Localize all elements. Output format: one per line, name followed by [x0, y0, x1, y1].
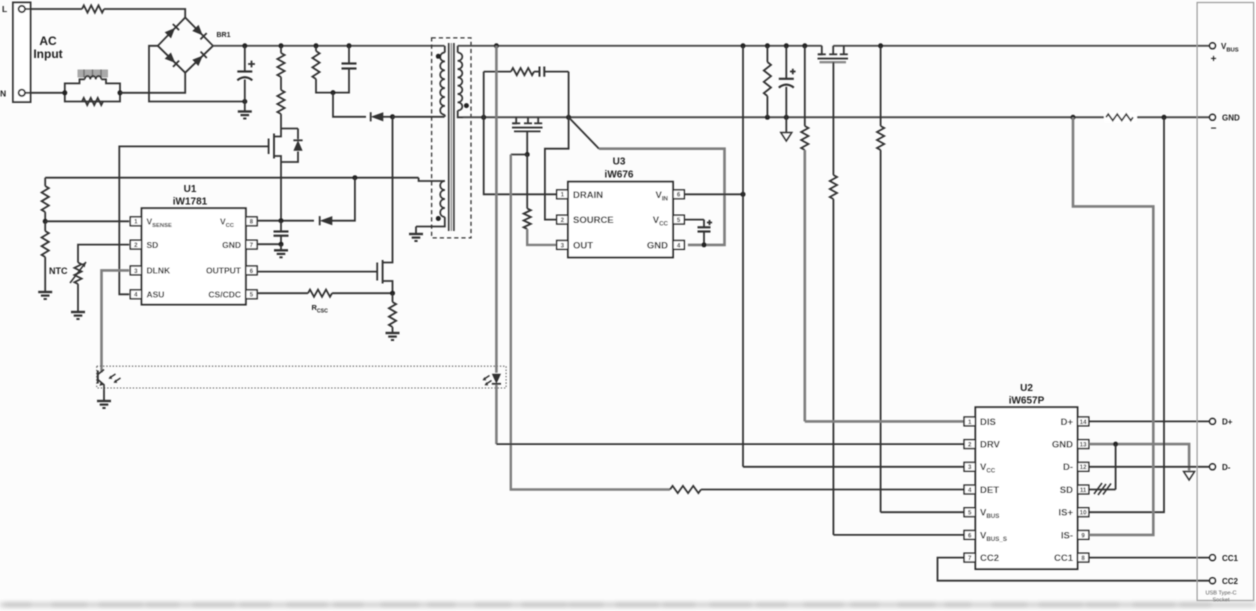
choke L1 winding — [85, 76, 102, 79]
svg-text:SD: SD — [1060, 485, 1073, 496]
svg-text:Input: Input — [33, 47, 62, 61]
svg-text:U3: U3 — [613, 157, 626, 168]
U2 pin label SD — [1060, 485, 1073, 496]
node switch node — [390, 114, 395, 119]
U1 pin label ASU — [147, 290, 165, 300]
capacitor C4 (snubber) — [534, 67, 569, 77]
U1 pin label OUTPUT — [206, 266, 242, 276]
node — [314, 43, 319, 48]
ground (U2 GND) — [1184, 472, 1195, 481]
node VCC cap — [279, 218, 284, 223]
svg-text:IS+: IS+ — [1058, 508, 1073, 519]
diode Q1 body — [293, 140, 302, 150]
svg-text:CC1: CC1 — [1222, 554, 1239, 563]
bridge BR1 diode D-c — [165, 53, 179, 67]
svg-text:CC2: CC2 — [980, 553, 999, 564]
wire — [331, 178, 355, 221]
U2 pin 7 — [964, 553, 975, 562]
svg-text:OUTPUT: OUTPUT — [206, 266, 242, 276]
wire SD — [78, 245, 129, 263]
U1 pin label DLNK — [147, 266, 171, 276]
resistor R6 (snubber) — [484, 68, 534, 75]
ground (aux winding) — [409, 227, 423, 242]
node Q2 source — [390, 291, 395, 296]
resistor R3 (clamp) — [312, 46, 333, 93]
U3 pin 1 — [557, 190, 568, 199]
U3 pin label GND — [647, 241, 668, 252]
U3 pin label DRAIN — [573, 190, 603, 201]
svg-text:10: 10 — [1080, 510, 1087, 517]
svg-text:SOURCE: SOURCE — [573, 215, 614, 226]
U3 pin label OUT — [573, 241, 593, 252]
wire VCC — [257, 220, 314, 222]
wire SD link — [1089, 444, 1116, 489]
node — [741, 43, 746, 48]
wire IS+ — [1089, 117, 1164, 512]
U3 pin label VCC — [653, 215, 669, 228]
svg-text:4: 4 — [134, 292, 138, 299]
SD strike marks — [1094, 483, 1111, 495]
wire Q1 gate to ASU — [119, 146, 268, 294]
wire L — [25, 8, 82, 10]
resistor R11 — [877, 46, 884, 512]
wire U3 drain — [484, 117, 557, 194]
U1 pin 6 — [246, 266, 257, 275]
scan artifact band — [0, 602, 1256, 608]
U2 pin label CC1 — [1054, 553, 1074, 564]
svg-text:iW1781: iW1781 — [173, 197, 208, 208]
wire IS- — [1073, 117, 1153, 535]
wire — [104, 9, 185, 18]
resistor R9 — [801, 46, 808, 422]
node — [566, 115, 571, 120]
svg-text:−: − — [1211, 124, 1217, 135]
node choke left — [62, 90, 67, 95]
label BR1 — [217, 32, 231, 39]
svg-text:iW657P: iW657P — [1009, 396, 1045, 407]
bridge BR1 diode D-b — [192, 25, 206, 39]
node — [702, 242, 707, 247]
wire — [483, 72, 485, 118]
transformer T1 aux winding — [416, 178, 445, 227]
wire aux rail — [45, 177, 418, 179]
U2 pin 3 — [964, 462, 975, 471]
capacitor C3 (VCC) — [274, 221, 289, 245]
label USB Type-C Socket — [1206, 591, 1237, 604]
svg-text:ASU: ASU — [147, 290, 165, 300]
svg-text:iW676: iW676 — [605, 170, 634, 181]
terminal CC2 — [1210, 577, 1239, 586]
wire — [333, 93, 366, 117]
svg-text:7: 7 — [250, 242, 254, 249]
ground (divider) — [38, 292, 52, 299]
transistor Q2 (main switch MOSFET) — [377, 117, 392, 293]
svg-text:DET: DET — [980, 485, 999, 496]
svg-text:1: 1 — [968, 419, 972, 426]
U1 pin 7 — [246, 240, 257, 249]
ground (U1 VCC) — [274, 244, 288, 257]
U2 pin 1 — [964, 417, 975, 426]
wire — [149, 46, 245, 102]
capacitor C5 (U3 VCC) — [684, 220, 712, 245]
svg-text:CC2: CC2 — [1222, 577, 1239, 586]
resistor R8 (preload) — [764, 46, 771, 118]
U4 LED arrows — [483, 376, 492, 386]
transistor Q1 (startup MOSFET) — [269, 129, 298, 221]
U2 pin 11 — [1078, 485, 1089, 494]
connector J2 (USB Type-C socket) — [1197, 3, 1254, 601]
resistor R10 (gate) — [830, 175, 837, 535]
wire GND pin — [257, 243, 281, 245]
svg-text:U2: U2 — [1020, 383, 1033, 394]
U1 pin 3 — [130, 266, 141, 275]
svg-text:2: 2 — [561, 217, 565, 224]
svg-text:U1: U1 — [184, 184, 197, 195]
terminal D+ — [1210, 418, 1233, 427]
resistor R4 — [42, 178, 49, 222]
node — [741, 192, 746, 197]
transistor U4 phototransistor — [98, 367, 104, 401]
wire Vsense — [45, 220, 129, 222]
transformer T1 shield box — [432, 38, 471, 238]
wire DLNK — [102, 270, 130, 366]
label U1 — [173, 184, 208, 208]
wire VBUS rail right — [833, 45, 1212, 47]
U1 pin 5 — [246, 290, 257, 299]
svg-text:DLNK: DLNK — [147, 266, 171, 276]
terminal CC1 — [1210, 554, 1239, 563]
wire U2 VCC drop — [742, 46, 744, 467]
U2 pin 2 — [964, 440, 975, 449]
optocoupler U4 box — [97, 366, 506, 388]
transformer T1 primary winding — [440, 46, 445, 117]
node primary gnd — [242, 99, 247, 104]
U2 pin label VBUS_S — [980, 530, 1007, 543]
U2 pin 5 — [964, 508, 975, 517]
wire VBUS U2 — [881, 511, 965, 513]
diode D1 (clamp) — [371, 112, 384, 121]
U3 pin label SOURCE — [573, 215, 614, 226]
U1 pin label SD — [147, 240, 159, 250]
node T1 secondary polarity dot — [464, 103, 469, 108]
wire DET route — [511, 155, 670, 490]
resistor RCS — [389, 293, 396, 332]
wire — [393, 116, 445, 118]
resistor R5 — [42, 221, 49, 291]
U2 pin 4 — [964, 485, 975, 494]
U3 pin 4 — [673, 241, 684, 250]
U2 pin label VBUS — [980, 508, 999, 521]
svg-text:DRV: DRV — [980, 440, 1001, 451]
svg-text:13: 13 — [1080, 442, 1087, 449]
svg-text:6: 6 — [250, 268, 254, 275]
U1 pin label CS/CDC — [208, 290, 241, 300]
wire — [511, 154, 527, 156]
op-amp U2 (iW657P USB-PD controller) body — [975, 407, 1077, 569]
wire D- — [1089, 466, 1213, 468]
svg-text:DRAIN: DRAIN — [573, 190, 603, 201]
node — [784, 115, 789, 120]
fuse F1 — [82, 5, 104, 12]
node — [494, 43, 499, 48]
label L — [2, 4, 7, 14]
node — [1113, 442, 1118, 447]
ground (RCS) — [386, 333, 400, 340]
diode D2 (VCC) — [320, 216, 333, 225]
svg-text:2: 2 — [968, 442, 972, 449]
label U2 — [1009, 383, 1045, 407]
U3 pin 3 — [557, 241, 568, 250]
U2 pin 9 — [1078, 531, 1089, 540]
svg-text:CS/CDC: CS/CDC — [208, 290, 241, 300]
node — [481, 115, 486, 120]
svg-text:3: 3 — [561, 242, 565, 249]
ground (NTC) — [71, 312, 85, 319]
wire VBUS_S U2 — [833, 534, 964, 536]
wire DC rail — [213, 45, 445, 47]
node — [279, 242, 284, 247]
capacitor C2 (clamp) — [333, 46, 357, 93]
node — [765, 43, 770, 48]
U2 pin label IS+ — [1058, 508, 1073, 519]
choke L1 core — [78, 70, 109, 78]
U2 pin 10 — [1078, 508, 1089, 517]
node T1 primary polarity dot — [436, 54, 441, 59]
U2 pin 6 — [964, 531, 975, 540]
svg-text:7: 7 — [968, 555, 972, 562]
svg-text:D-: D- — [1222, 463, 1231, 472]
svg-text:2: 2 — [134, 242, 138, 249]
svg-text:OUT: OUT — [573, 241, 593, 252]
label U3 — [605, 157, 634, 181]
wire — [568, 72, 570, 118]
resistor R1 — [277, 46, 284, 90]
U2 pin label CC2 — [980, 553, 999, 564]
U2 pin label DRV — [980, 440, 1001, 451]
wire CS/CDC — [257, 292, 308, 294]
svg-text:14: 14 — [1080, 419, 1087, 426]
label AC Input — [33, 34, 62, 61]
svg-text:12: 12 — [1080, 464, 1087, 471]
svg-text:6: 6 — [968, 532, 972, 539]
U2 pin label D- — [1063, 462, 1073, 473]
wire VCC U2 — [743, 466, 964, 468]
bridge BR1 body — [158, 18, 213, 73]
wire GND U2 — [1089, 444, 1189, 470]
svg-text:D-: D- — [1063, 462, 1073, 473]
node aux rail — [352, 175, 357, 180]
transformer T1 core — [449, 43, 454, 231]
node — [802, 43, 807, 48]
svg-text:D+: D+ — [1222, 418, 1233, 427]
wire diagonal — [569, 117, 599, 148]
U1 pin label VSENSE — [147, 217, 172, 230]
U3 pin label VIN — [655, 190, 668, 203]
svg-text:4: 4 — [677, 242, 681, 249]
resistor R12 (DET) — [670, 486, 964, 493]
svg-text:8: 8 — [1081, 555, 1085, 562]
U2 pin label DET — [980, 485, 999, 496]
wire U3 VIN — [684, 193, 743, 195]
terminal GND — [1210, 114, 1240, 135]
ground (optocoupler) — [97, 401, 111, 408]
node — [242, 43, 247, 48]
svg-text:N: N — [0, 89, 6, 99]
U2 pin label IS- — [1061, 530, 1073, 541]
choke L1 damping resistor — [82, 98, 103, 105]
svg-text:NTC: NTC — [49, 266, 68, 276]
svg-text:4: 4 — [968, 487, 972, 494]
svg-text:CC1: CC1 — [1054, 553, 1074, 564]
U3 pin 2 — [557, 215, 568, 224]
wire — [332, 292, 393, 294]
U2 pin 14 — [1078, 417, 1089, 426]
wire U3 gnd route — [599, 149, 725, 245]
wire N — [25, 92, 65, 94]
label NTC — [49, 266, 68, 276]
svg-text:BR1: BR1 — [217, 32, 231, 39]
choke L1 body — [65, 79, 120, 101]
svg-text:5: 5 — [968, 510, 972, 517]
op-amp U1 (iW1781 controller) body — [142, 208, 246, 304]
wire OUTPUT — [257, 271, 377, 273]
wire — [120, 73, 185, 93]
U2 pin 12 — [1078, 462, 1089, 471]
wire VBUS rail — [458, 45, 822, 47]
label RCSC — [312, 303, 329, 315]
svg-text:DIS: DIS — [980, 417, 996, 428]
svg-text:6: 6 — [677, 192, 681, 199]
svg-text:AC: AC — [39, 34, 57, 48]
svg-text:3: 3 — [134, 268, 138, 275]
wire GND rail — [463, 116, 1213, 118]
svg-text:GND: GND — [647, 241, 668, 252]
svg-text:GND: GND — [1222, 114, 1240, 123]
svg-text:9: 9 — [1081, 532, 1085, 539]
bridge BR1 diode D-a — [165, 24, 179, 38]
U1 pin 4 — [130, 290, 141, 299]
U1 pin 8 — [246, 217, 257, 226]
svg-text:5: 5 — [677, 217, 681, 224]
svg-text:+: + — [1211, 54, 1217, 65]
svg-text:3: 3 — [968, 464, 972, 471]
wire CC1 — [1089, 557, 1213, 559]
thermistor NTC — [70, 262, 86, 312]
U3 pin 5 — [673, 215, 684, 224]
svg-text:11: 11 — [1080, 487, 1087, 494]
svg-text:D+: D+ — [1061, 417, 1074, 428]
op-amp U3 (iW676 sync controller) body — [568, 182, 673, 258]
U2 pin label D+ — [1061, 417, 1074, 428]
U2 pin label VCC — [980, 462, 996, 475]
wire DIS — [805, 420, 964, 423]
U1 pin label VCC — [220, 217, 235, 230]
node — [878, 43, 883, 48]
resistor R13 (shunt) — [1104, 112, 1137, 122]
wire U3 source — [545, 117, 569, 219]
node — [765, 115, 770, 120]
svg-text:SD: SD — [147, 240, 159, 250]
svg-text:1: 1 — [561, 192, 565, 199]
resistor R2 — [277, 90, 284, 129]
diode U4 LED — [492, 46, 501, 444]
ground — [238, 102, 252, 119]
transformer T1 secondary winding — [458, 46, 463, 118]
node — [347, 43, 352, 48]
svg-text:L: L — [2, 4, 7, 14]
node — [1071, 115, 1076, 120]
ground (output) — [781, 117, 792, 141]
wire D+ — [1089, 420, 1213, 422]
wire CC2 route — [938, 558, 1213, 581]
capacitor C6 (output) — [779, 46, 796, 118]
connector J1 (AC input) — [13, 3, 31, 103]
svg-text:GND: GND — [222, 240, 241, 250]
svg-text:GND: GND — [1052, 440, 1073, 451]
U4 light arrows — [109, 374, 121, 383]
terminal VBUS — [1210, 42, 1239, 65]
node — [784, 43, 789, 48]
U2 pin 8 — [1078, 553, 1089, 562]
svg-text:1: 1 — [134, 219, 138, 226]
svg-text:IS-: IS- — [1061, 530, 1073, 541]
U2 pin label DIS — [980, 417, 996, 428]
node — [1162, 115, 1167, 120]
wire DRV — [496, 443, 964, 445]
bridge BR1 diode D-d — [192, 52, 207, 66]
node Vsense — [43, 219, 48, 224]
terminal D- — [1210, 463, 1231, 472]
U1 pin label GND — [222, 240, 241, 250]
capacitor C1 — [237, 46, 255, 102]
transistor Q3 (sync rectifier MOSFET) — [512, 117, 543, 154]
resistor R7 — [524, 155, 557, 245]
U2 pin label GND — [1052, 440, 1073, 451]
U3 pin 6 — [673, 190, 684, 199]
node choke right — [118, 90, 123, 95]
node — [279, 43, 284, 48]
svg-text:5: 5 — [250, 292, 254, 299]
resistor RCSC — [308, 290, 332, 297]
U1 pin 2 — [130, 240, 141, 249]
U1 pin 1 — [130, 217, 141, 226]
transistor Q4 (load switch MOSFET) — [818, 46, 849, 175]
node T1 aux polarity dot — [436, 216, 441, 221]
svg-text:8: 8 — [250, 219, 254, 226]
label N — [0, 89, 6, 99]
node Q3 gate — [525, 152, 530, 157]
svg-text:USB Type-C: USB Type-C — [1206, 591, 1237, 597]
U2 pin 13 — [1078, 440, 1089, 449]
wire — [383, 116, 393, 118]
node clamp — [331, 90, 336, 95]
